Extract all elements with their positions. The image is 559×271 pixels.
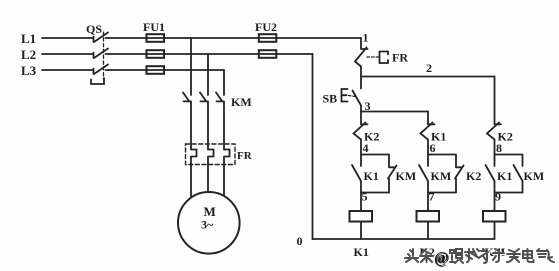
FR NC contact (355, 48, 368, 77)
QS handle (91, 78, 104, 84)
FR contact bracket (380, 52, 389, 64)
switch QS pole 3 (94, 65, 109, 75)
fuse FU2 pole 1 (259, 34, 277, 42)
wire L1 phase line (42, 37, 361, 39)
wire L3 phase line (42, 69, 224, 71)
svg-text:3~: 3~ (201, 218, 214, 232)
FR heater element 3 (224, 150, 230, 202)
fuse FU1 pole 3 (147, 66, 165, 74)
thermal relay FR heater box dashed (186, 144, 236, 165)
push button SB (342, 77, 362, 112)
svg-text:7: 7 (429, 190, 435, 204)
branch 2 parallel loop wires (428, 155, 456, 193)
branch 1 parallel loop wires (361, 155, 389, 193)
QS linkage dashed (103, 32, 105, 79)
svg-text:FR: FR (237, 150, 253, 162)
motor M 3~ (178, 192, 240, 254)
svg-text:5: 5 (362, 190, 368, 204)
contactor KM main pole 2 (200, 93, 208, 150)
svg-text:L2: L2 (21, 47, 36, 62)
fuse FU1 pole 1 (147, 34, 165, 42)
wire L1 corner down to control (360, 38, 362, 48)
branch 3 parallel loop wires (495, 155, 523, 193)
contact K1 NO branch3 (486, 155, 495, 212)
watermark 头条@跟我动手学电气 (405, 249, 555, 268)
wire feed branch 3 (494, 77, 496, 125)
svg-text:K1: K1 (364, 169, 379, 183)
switch QS pole 2 (94, 49, 109, 59)
svg-text:L1: L1 (21, 31, 36, 46)
svg-text:K1: K1 (497, 169, 512, 183)
switch QS pole 1 (94, 33, 109, 43)
svg-text:@: @ (434, 250, 448, 267)
wire drop from L2 to KM (207, 54, 209, 95)
svg-text:6: 6 (430, 141, 436, 155)
svg-text:0: 0 (297, 234, 303, 248)
fuse FU2 pole 2 (259, 50, 277, 58)
svg-text:L3: L3 (21, 63, 37, 78)
contact K2 NC branch2 loop (455, 166, 464, 193)
svg-text:FR: FR (392, 51, 408, 65)
wire bottom rail (313, 238, 495, 240)
svg-text:K1: K1 (354, 245, 369, 259)
svg-text:QS: QS (86, 22, 102, 36)
wire line 2 (361, 76, 495, 78)
contact K1 NC branch 2 (421, 123, 435, 155)
wire left rail (312, 54, 314, 239)
svg-text:KM: KM (396, 169, 417, 183)
contact K2 NC branch 1 (354, 123, 368, 155)
contact KM NC branch1 loop (388, 166, 397, 193)
wire node3 to K2 branch 1 (360, 112, 362, 125)
svg-text:K2: K2 (466, 169, 481, 183)
wire feed branch 2 (427, 112, 429, 125)
svg-text:9: 9 (495, 190, 501, 204)
svg-text:SB: SB (323, 92, 338, 106)
wire drop from L1 to KM (190, 38, 192, 95)
coil K2 (417, 211, 440, 239)
FR contact actuator dashed (367, 56, 379, 58)
FR heater element 1 (191, 150, 197, 202)
svg-text:3: 3 (365, 99, 371, 113)
contact KM NO branch2 (419, 155, 428, 212)
contactor KM main pole 3 (216, 93, 224, 150)
contact K2 NC branch 3 (487, 123, 501, 155)
svg-text:1: 1 (363, 31, 369, 45)
svg-text:2: 2 (426, 61, 432, 75)
svg-text:KM: KM (524, 169, 545, 183)
coil K1 (350, 211, 373, 239)
contact KM NO branch3 loop (514, 165, 523, 193)
svg-text:8: 8 (496, 141, 502, 155)
FR heater element 2 (208, 150, 214, 202)
svg-text:KM: KM (231, 95, 252, 109)
coil KM (483, 211, 506, 239)
wire line 3 (361, 111, 428, 113)
svg-text:KM: KM (431, 169, 452, 183)
contactor KM main pole 1 (183, 93, 191, 150)
svg-text:4: 4 (363, 141, 369, 155)
contact K1 NO branch1 (352, 155, 361, 212)
fuse FU1 pole 2 (147, 50, 165, 58)
wire drop from L3 to KM (223, 70, 225, 95)
svg-text:FU1: FU1 (143, 20, 165, 34)
svg-text:FU2: FU2 (255, 20, 277, 34)
wire L2 phase line (42, 53, 313, 55)
